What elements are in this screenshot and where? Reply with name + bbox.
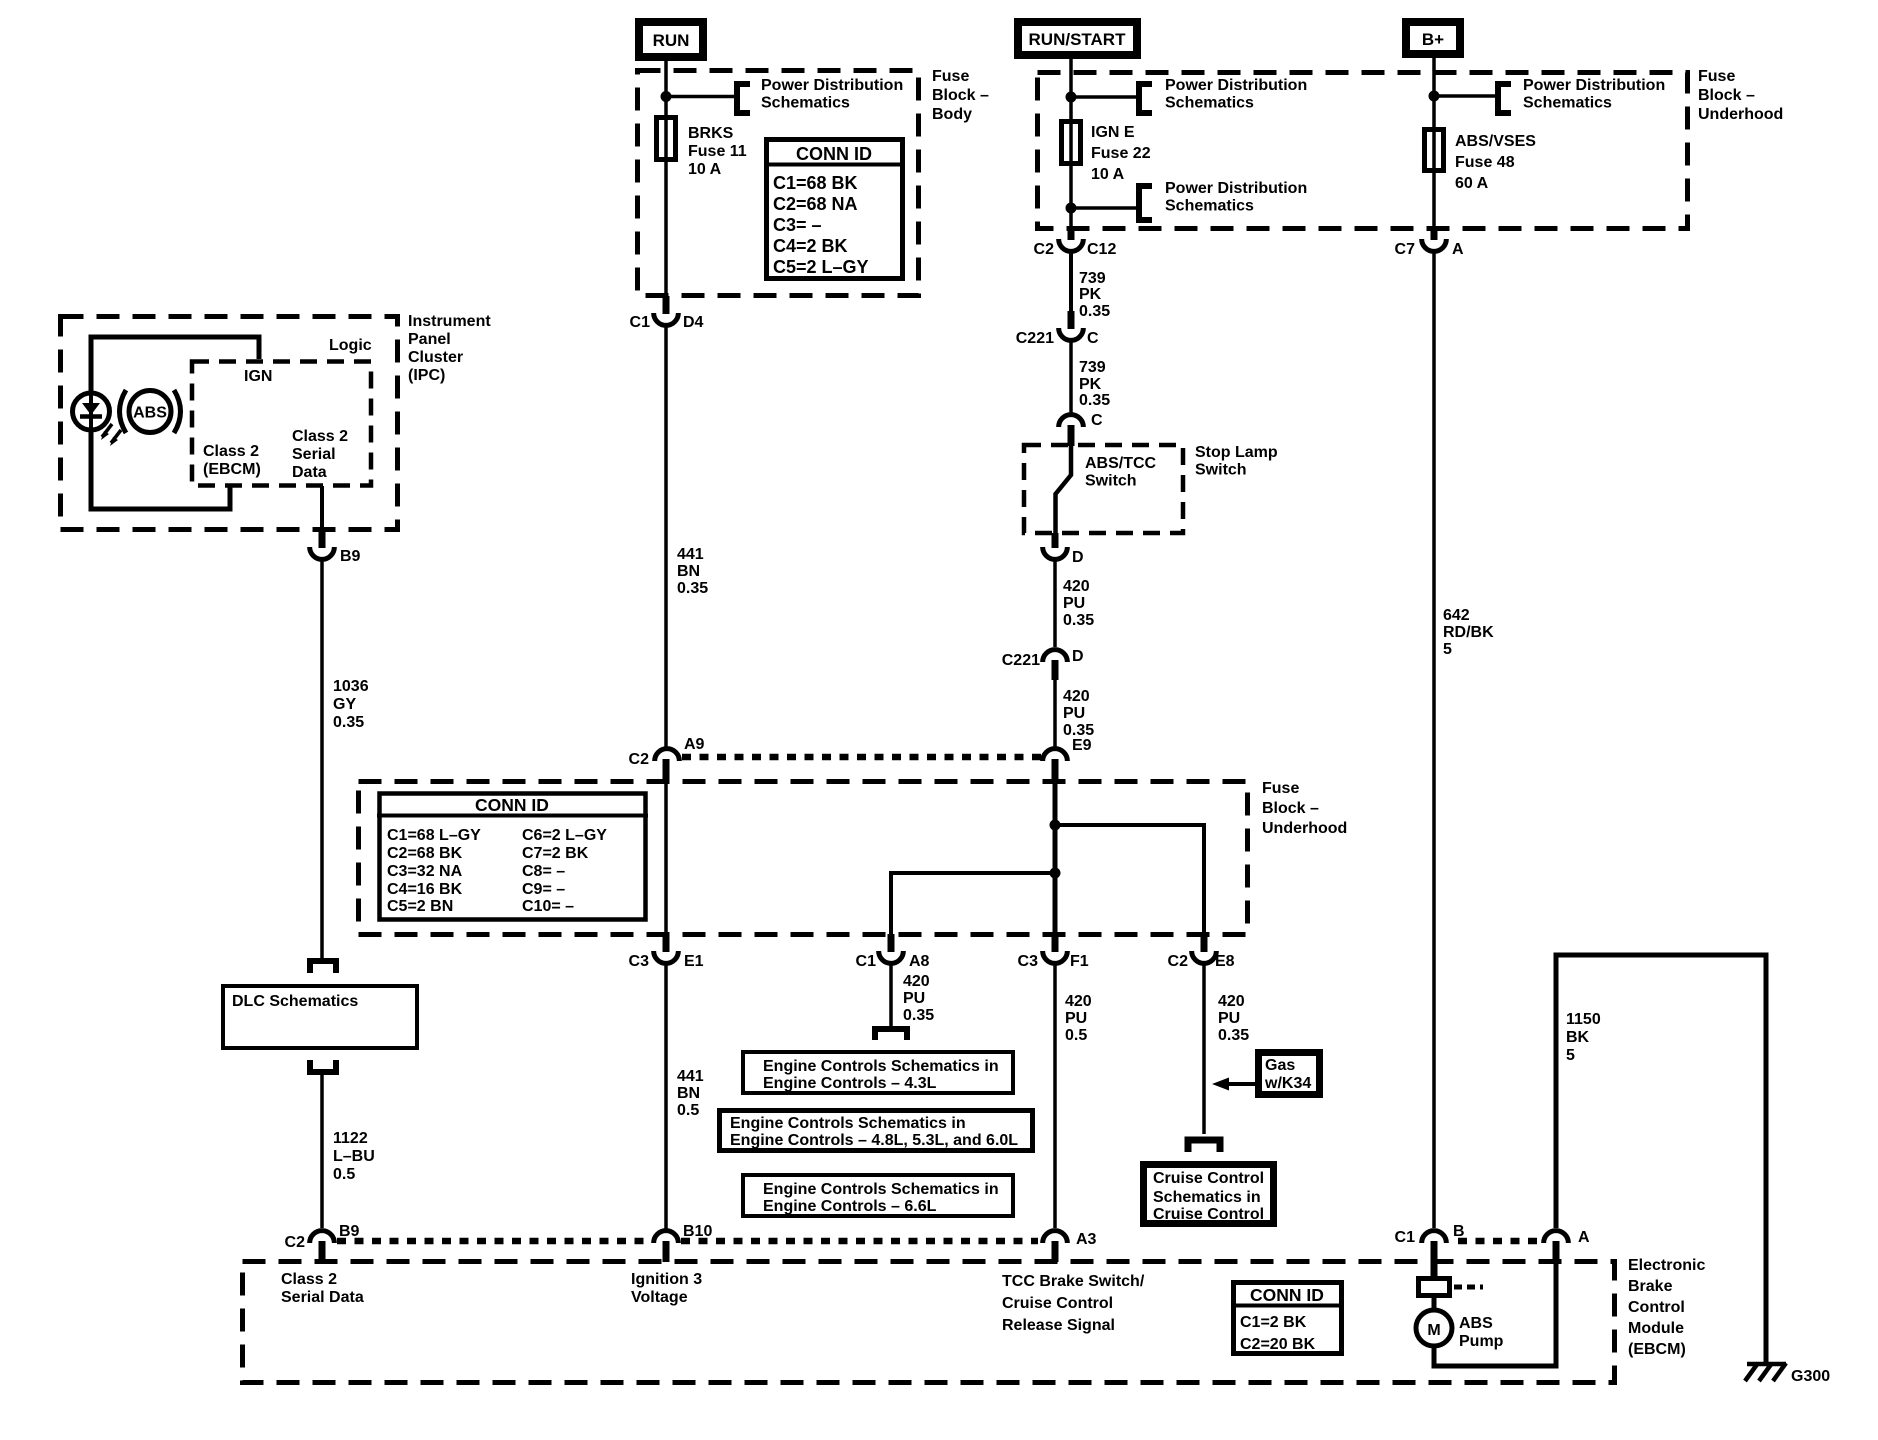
- wire branch to power distribution (lower): [1071, 206, 1138, 210]
- connector C3/E1: [654, 951, 679, 963]
- wire branch to power distribution (body): [666, 95, 736, 99]
- svg-text:(EBCM): (EBCM): [203, 461, 261, 478]
- fuse block underhood top dashed box: [1038, 73, 1688, 229]
- svg-text:441: 441: [677, 1068, 704, 1085]
- svg-text:C7=2 BK: C7=2 BK: [522, 845, 589, 862]
- svg-text:C4=2 BK: C4=2 BK: [773, 236, 848, 256]
- svg-text:G300: G300: [1791, 1368, 1830, 1385]
- svg-text:w/K34: w/K34: [1264, 1075, 1311, 1092]
- connector D: [1043, 547, 1068, 559]
- svg-text:Instrument: Instrument: [408, 313, 491, 330]
- wire RUN to fuse: [664, 57, 668, 298]
- svg-text:BRKS: BRKS: [688, 125, 734, 142]
- svg-text:C10= –: C10= –: [522, 898, 574, 915]
- LED light arrows: [101, 424, 121, 446]
- connector E9: [1043, 749, 1068, 761]
- wire branch to power distribution (upper): [1071, 95, 1138, 99]
- svg-text:0.5: 0.5: [333, 1166, 355, 1183]
- cruise control box: [1144, 1165, 1274, 1224]
- bracket power distribution (lower): [1139, 186, 1152, 220]
- svg-text:Fuse: Fuse: [1698, 68, 1735, 85]
- svg-text:Module: Module: [1628, 1320, 1684, 1337]
- svg-text:CONN ID: CONN ID: [475, 795, 549, 815]
- svg-text:Fuse 48: Fuse 48: [1455, 154, 1515, 171]
- svg-text:0.35: 0.35: [1063, 612, 1094, 629]
- key box RUN: [639, 22, 703, 57]
- wire 420 PU 0.35 (lower): [1053, 680, 1057, 747]
- connector C2/C12: [1059, 239, 1084, 251]
- svg-text:Logic: Logic: [329, 337, 372, 354]
- svg-text:5: 5: [1566, 1047, 1575, 1064]
- svg-text:CONN ID: CONN ID: [1250, 1285, 1324, 1305]
- DLC Schematics box: [223, 986, 417, 1048]
- svg-text:C8= –: C8= –: [522, 863, 565, 880]
- ABS telltale symbol: [120, 390, 181, 433]
- svg-text:Underhood: Underhood: [1698, 106, 1783, 123]
- svg-text:Block –: Block –: [932, 87, 989, 104]
- svg-text:Power Distribution: Power Distribution: [1523, 77, 1665, 94]
- svg-text:0.5: 0.5: [1065, 1027, 1087, 1044]
- svg-text:Engine Controls Schematics in: Engine Controls Schematics in: [763, 1181, 999, 1198]
- svg-text:Cruise Control: Cruise Control: [1153, 1170, 1264, 1187]
- svg-text:C2: C2: [1034, 241, 1055, 258]
- svg-text:Serial Data: Serial Data: [281, 1289, 364, 1306]
- svg-text:D: D: [1072, 648, 1084, 665]
- wire E9 feed inside box: [1053, 779, 1058, 936]
- connector stub C221/C: [1068, 311, 1075, 329]
- wire 642 RD/BK 5: [1432, 253, 1436, 1228]
- svg-text:A: A: [1578, 1229, 1590, 1246]
- bracket power distribution (B+): [1498, 84, 1511, 113]
- svg-text:B10: B10: [683, 1223, 712, 1240]
- svg-text:0.35: 0.35: [677, 580, 708, 597]
- engine controls 6.6L box: [743, 1175, 1013, 1216]
- svg-text:PU: PU: [1063, 595, 1085, 612]
- svg-text:F1: F1: [1070, 953, 1089, 970]
- svg-text:C3= –: C3= –: [773, 215, 822, 235]
- svg-text:C: C: [1087, 330, 1099, 347]
- svg-text:IGN: IGN: [244, 368, 272, 385]
- wire B+ feed: [1432, 54, 1436, 227]
- arrow Gas to wire: [1212, 1078, 1255, 1091]
- svg-text:Fuse: Fuse: [932, 68, 969, 85]
- EBCM dashed box: [243, 1262, 1615, 1383]
- svg-text:Control: Control: [1628, 1299, 1685, 1316]
- svg-text:Cruise Control: Cruise Control: [1002, 1295, 1113, 1312]
- svg-text:C3: C3: [1018, 953, 1039, 970]
- svg-text:BK: BK: [1566, 1029, 1590, 1046]
- svg-text:BN: BN: [677, 563, 700, 580]
- svg-text:(IPC): (IPC): [408, 367, 445, 384]
- connector stub C2/E8: [1201, 934, 1208, 952]
- connector stub C2/C12: [1068, 226, 1075, 240]
- svg-text:E9: E9: [1072, 737, 1092, 754]
- svg-text:C1: C1: [1395, 1229, 1416, 1246]
- bracket into engine controls: [875, 1029, 907, 1040]
- svg-text:B+: B+: [1422, 30, 1444, 49]
- svg-text:GY: GY: [333, 696, 356, 713]
- svg-text:Panel: Panel: [408, 331, 451, 348]
- svg-text:0.35: 0.35: [903, 1007, 934, 1024]
- svg-text:ABS: ABS: [133, 405, 167, 422]
- svg-text:PU: PU: [1063, 705, 1085, 722]
- ABS indicator LED: [73, 393, 110, 430]
- svg-text:C5=2 L–GY: C5=2 L–GY: [773, 257, 869, 277]
- svg-text:A9: A9: [684, 736, 705, 753]
- CONN ID table (fuse block body): [764, 140, 905, 279]
- svg-text:C1=68 L–GY: C1=68 L–GY: [387, 827, 481, 844]
- svg-text:C1=68 BK: C1=68 BK: [773, 173, 858, 193]
- wire branch to E8: [1055, 825, 1204, 936]
- svg-text:Fuse: Fuse: [1262, 780, 1299, 797]
- svg-text:A8: A8: [909, 953, 930, 970]
- svg-text:0.35: 0.35: [333, 714, 364, 731]
- svg-text:Power Distribution: Power Distribution: [1165, 77, 1307, 94]
- svg-text:PU: PU: [1065, 1010, 1087, 1027]
- svg-text:Cluster: Cluster: [408, 349, 463, 366]
- svg-text:Switch: Switch: [1085, 473, 1137, 490]
- svg-text:CONN ID: CONN ID: [796, 144, 872, 164]
- svg-text:Data: Data: [292, 464, 327, 481]
- svg-text:60 A: 60 A: [1455, 175, 1489, 192]
- connector C2/E8: [1192, 951, 1217, 963]
- svg-text:10 A: 10 A: [1091, 166, 1125, 183]
- connector C7/A: [1422, 239, 1447, 251]
- svg-text:Stop Lamp: Stop Lamp: [1195, 444, 1278, 461]
- wire RUN/START feed: [1069, 55, 1073, 227]
- svg-text:Schematics: Schematics: [761, 95, 850, 112]
- svg-text:Cruise Control: Cruise Control: [1153, 1206, 1264, 1223]
- junction node to A8 branch: [1050, 868, 1061, 879]
- svg-text:C2=20 BK: C2=20 BK: [1240, 1336, 1316, 1353]
- connector C2/B9 (EBCM): [310, 1231, 335, 1243]
- svg-text:Voltage: Voltage: [631, 1289, 688, 1306]
- wire IPC lamp loop top: [91, 337, 259, 395]
- svg-text:B9: B9: [339, 1223, 360, 1240]
- connector stub C3/E1: [663, 934, 670, 952]
- svg-text:5: 5: [1443, 641, 1452, 658]
- svg-text:Switch: Switch: [1195, 462, 1247, 479]
- connector C221/C: [1059, 328, 1084, 340]
- connector C1/B (EBCM): [1422, 1231, 1447, 1243]
- wire 739 PK 0.35 upper: [1069, 253, 1073, 328]
- wire class 2 serial data out of IPC: [320, 486, 324, 548]
- bracket power distribution (upper): [1139, 84, 1152, 113]
- junction node to E8 branch: [1050, 820, 1061, 831]
- svg-text:441: 441: [677, 546, 704, 563]
- fuse BRKS Fuse 11: [657, 118, 676, 160]
- svg-text:739: 739: [1079, 270, 1106, 287]
- svg-text:C2: C2: [285, 1234, 306, 1251]
- svg-text:D: D: [1072, 549, 1084, 566]
- svg-text:Fuse 22: Fuse 22: [1091, 145, 1151, 162]
- svg-text:C2=68 NA: C2=68 NA: [773, 194, 858, 214]
- svg-text:Schematics: Schematics: [1165, 95, 1254, 112]
- connector B10 (EBCM): [654, 1231, 679, 1243]
- svg-text:420: 420: [1063, 688, 1090, 705]
- junction node on RUN feed: [661, 91, 672, 102]
- connector stub C1/D4: [663, 296, 670, 314]
- connector C1/D4: [654, 313, 679, 325]
- svg-text:TCC Brake Switch/: TCC Brake Switch/: [1002, 1273, 1145, 1290]
- connector C1/A8: [879, 951, 904, 963]
- connector A (EBCM): [1544, 1231, 1569, 1243]
- Gas w/K34 box: [1259, 1053, 1320, 1095]
- svg-text:Engine Controls Schematics in: Engine Controls Schematics in: [763, 1058, 999, 1075]
- svg-text:M: M: [1427, 1322, 1440, 1339]
- svg-text:Schematics: Schematics: [1165, 198, 1254, 215]
- svg-text:E1: E1: [684, 953, 704, 970]
- svg-text:C2: C2: [1168, 953, 1189, 970]
- svg-text:C2: C2: [629, 751, 650, 768]
- wire IPC lamp loop bottom: [91, 428, 230, 509]
- wire 739 PK 0.35 lower: [1069, 342, 1073, 413]
- svg-text:B: B: [1453, 1223, 1465, 1240]
- connector C into stop lamp switch: [1059, 415, 1084, 427]
- connector A3 (EBCM): [1043, 1231, 1068, 1243]
- svg-text:10 A: 10 A: [688, 161, 722, 178]
- connector B9: [310, 547, 335, 559]
- svg-text:420: 420: [1065, 993, 1092, 1010]
- svg-text:C5=2 BN: C5=2 BN: [387, 898, 453, 915]
- key box B+: [1406, 22, 1460, 54]
- svg-text:PU: PU: [1218, 1010, 1240, 1027]
- wire 1036 GY 0.35: [320, 561, 324, 958]
- svg-text:420: 420: [903, 973, 930, 990]
- wire 420 PU 0.35 to cruise control: [1202, 961, 1206, 1134]
- wire 441 BN 0.5: [664, 965, 668, 1230]
- CONN ID table (underhood): [377, 794, 648, 920]
- wire motor to pin A: [1434, 1262, 1556, 1366]
- wire 1122 L-BU 0.5: [320, 1072, 324, 1228]
- svg-text:A: A: [1452, 241, 1464, 258]
- svg-text:B9: B9: [340, 548, 361, 565]
- svg-text:C221: C221: [1016, 330, 1054, 347]
- svg-text:IGN E: IGN E: [1091, 124, 1135, 141]
- bracket into cruise control: [1188, 1140, 1220, 1152]
- fuse block body dashed box: [638, 71, 919, 296]
- key box RUN/START: [1018, 22, 1137, 55]
- bracket into DLC: [310, 961, 336, 973]
- svg-text:D4: D4: [683, 314, 704, 331]
- svg-text:1122: 1122: [333, 1130, 368, 1147]
- instrument panel cluster dashed box: [61, 317, 398, 530]
- connector C221/D: [1043, 650, 1068, 662]
- fuse ABS/VSES Fuse 48: [1425, 130, 1444, 171]
- connector C3/F1: [1043, 951, 1068, 963]
- bracket out of DLC: [310, 1060, 336, 1072]
- svg-text:C3: C3: [629, 953, 650, 970]
- junction node RUN/START upper: [1066, 92, 1077, 103]
- svg-text:Engine Controls – 4.8L, 5.3L,: Engine Controls – 4.8L, 5.3L, and 6.0L: [730, 1132, 1018, 1149]
- svg-text:C1: C1: [630, 314, 651, 331]
- svg-text:ABS/TCC: ABS/TCC: [1085, 455, 1157, 472]
- svg-text:Fuse 11: Fuse 11: [688, 143, 747, 160]
- svg-text:C1: C1: [856, 953, 877, 970]
- svg-text:Power Distribution: Power Distribution: [1165, 180, 1307, 197]
- svg-text:Body: Body: [932, 106, 972, 123]
- svg-text:C12: C12: [1087, 241, 1116, 258]
- svg-text:420: 420: [1063, 578, 1090, 595]
- svg-text:C7: C7: [1395, 241, 1416, 258]
- svg-text:Class 2: Class 2: [292, 428, 348, 445]
- svg-text:0.5: 0.5: [677, 1102, 699, 1119]
- connector stub C1/A8: [888, 934, 895, 952]
- svg-text:Release Signal: Release Signal: [1002, 1317, 1115, 1334]
- svg-text:Electronic: Electronic: [1628, 1257, 1705, 1274]
- svg-text:Serial: Serial: [292, 446, 336, 463]
- svg-text:1150: 1150: [1566, 1011, 1601, 1028]
- svg-text:Engine Controls – 4.3L: Engine Controls – 4.3L: [763, 1075, 937, 1092]
- connector stub C7/A: [1431, 226, 1438, 240]
- svg-text:(EBCM): (EBCM): [1628, 1341, 1686, 1358]
- svg-text:RUN: RUN: [653, 31, 690, 50]
- svg-text:BN: BN: [677, 1085, 700, 1102]
- svg-text:Block –: Block –: [1262, 800, 1319, 817]
- CONN ID table (EBCM): [1231, 1283, 1344, 1354]
- connector C2/A9: [655, 749, 680, 761]
- dotted harness row EBCM: [337, 1238, 651, 1245]
- svg-text:RD/BK: RD/BK: [1443, 624, 1494, 641]
- logic dashed box: [192, 362, 371, 486]
- wire branch to power distribution (B+): [1434, 94, 1497, 98]
- svg-text:Gas: Gas: [1265, 1057, 1295, 1074]
- svg-text:DLC Schematics: DLC Schematics: [232, 993, 358, 1010]
- svg-text:420: 420: [1218, 993, 1245, 1010]
- svg-text:0.35: 0.35: [1218, 1027, 1249, 1044]
- svg-text:C3=32 NA: C3=32 NA: [387, 863, 463, 880]
- engine controls 4.8L 5.3L 6.0L box: [720, 1111, 1033, 1151]
- svg-text:Brake: Brake: [1628, 1278, 1673, 1295]
- svg-text:0.35: 0.35: [1079, 303, 1110, 320]
- fuse block underhood middle dashed box: [359, 782, 1248, 935]
- wire branch to A8: [891, 873, 1055, 936]
- svg-text:PU: PU: [903, 990, 925, 1007]
- svg-text:Engine Controls – 6.6L: Engine Controls – 6.6L: [763, 1198, 937, 1215]
- relay actuator dotted link: [1454, 1285, 1483, 1290]
- svg-text:Block –: Block –: [1698, 87, 1755, 104]
- svg-text:ABS: ABS: [1459, 1315, 1493, 1332]
- svg-text:642: 642: [1443, 607, 1470, 624]
- stop lamp switch dashed box: [1024, 445, 1183, 533]
- svg-text:Pump: Pump: [1459, 1333, 1504, 1350]
- svg-text:Class 2: Class 2: [281, 1271, 337, 1288]
- ABS/TCC switch blade: [1056, 445, 1072, 535]
- svg-text:Class 2: Class 2: [203, 443, 259, 460]
- pump motor relay contact: [1419, 1279, 1450, 1296]
- wire 441 BN 0.35: [664, 328, 668, 749]
- bracket power distribution (body): [737, 84, 750, 113]
- engine controls 4.3L box: [743, 1052, 1013, 1093]
- svg-text:C4=16 BK: C4=16 BK: [387, 881, 463, 898]
- svg-text:RUN/START: RUN/START: [1029, 30, 1127, 49]
- svg-text:PK: PK: [1079, 286, 1102, 303]
- wire 420 PU 0.5 (F1 to A3): [1053, 961, 1057, 1228]
- wire 1150 BK 5: [1556, 955, 1766, 1364]
- wire 420 PU 0.35 to engine controls: [889, 961, 893, 1029]
- connector stub D (below switch): [1052, 533, 1059, 548]
- dotted harness row A9 to E9: [682, 754, 1042, 761]
- junction node B+: [1429, 91, 1440, 102]
- svg-text:C1=2 BK: C1=2 BK: [1240, 1314, 1307, 1331]
- svg-text:C6=2 L–GY: C6=2 L–GY: [522, 827, 607, 844]
- fuse IGN E Fuse 22: [1062, 122, 1081, 164]
- svg-text:PK: PK: [1079, 376, 1102, 393]
- connector stub C3/F1: [1052, 934, 1059, 952]
- svg-text:Ignition 3: Ignition 3: [631, 1271, 702, 1288]
- junction node RUN/START lower: [1066, 203, 1077, 214]
- svg-text:1036: 1036: [333, 678, 369, 695]
- svg-text:Engine Controls Schematics in: Engine Controls Schematics in: [730, 1115, 966, 1132]
- svg-text:Schematics in: Schematics in: [1153, 1189, 1261, 1206]
- svg-text:739: 739: [1079, 359, 1106, 376]
- svg-text:C: C: [1091, 412, 1103, 429]
- svg-text:E8: E8: [1215, 953, 1235, 970]
- svg-text:Underhood: Underhood: [1262, 820, 1347, 837]
- svg-text:C221: C221: [1002, 652, 1040, 669]
- svg-text:0.35: 0.35: [1079, 392, 1110, 409]
- wire 441 through underhood box: [664, 779, 668, 936]
- svg-text:Power Distribution: Power Distribution: [761, 77, 903, 94]
- svg-text:ABS/VSES: ABS/VSES: [1455, 133, 1536, 150]
- ABS pump motor: [1416, 1310, 1452, 1346]
- wire 420 PU 0.35 (upper): [1053, 561, 1057, 647]
- svg-text:C2=68 BK: C2=68 BK: [387, 845, 463, 862]
- connector stub B9: [319, 530, 326, 548]
- ground G300: [1745, 1363, 1830, 1385]
- svg-text:C9= –: C9= –: [522, 881, 565, 898]
- svg-text:Schematics: Schematics: [1523, 95, 1612, 112]
- wire relay to motor: [1432, 1296, 1437, 1311]
- svg-text:L–BU: L–BU: [333, 1148, 375, 1165]
- svg-text:A3: A3: [1076, 1231, 1097, 1248]
